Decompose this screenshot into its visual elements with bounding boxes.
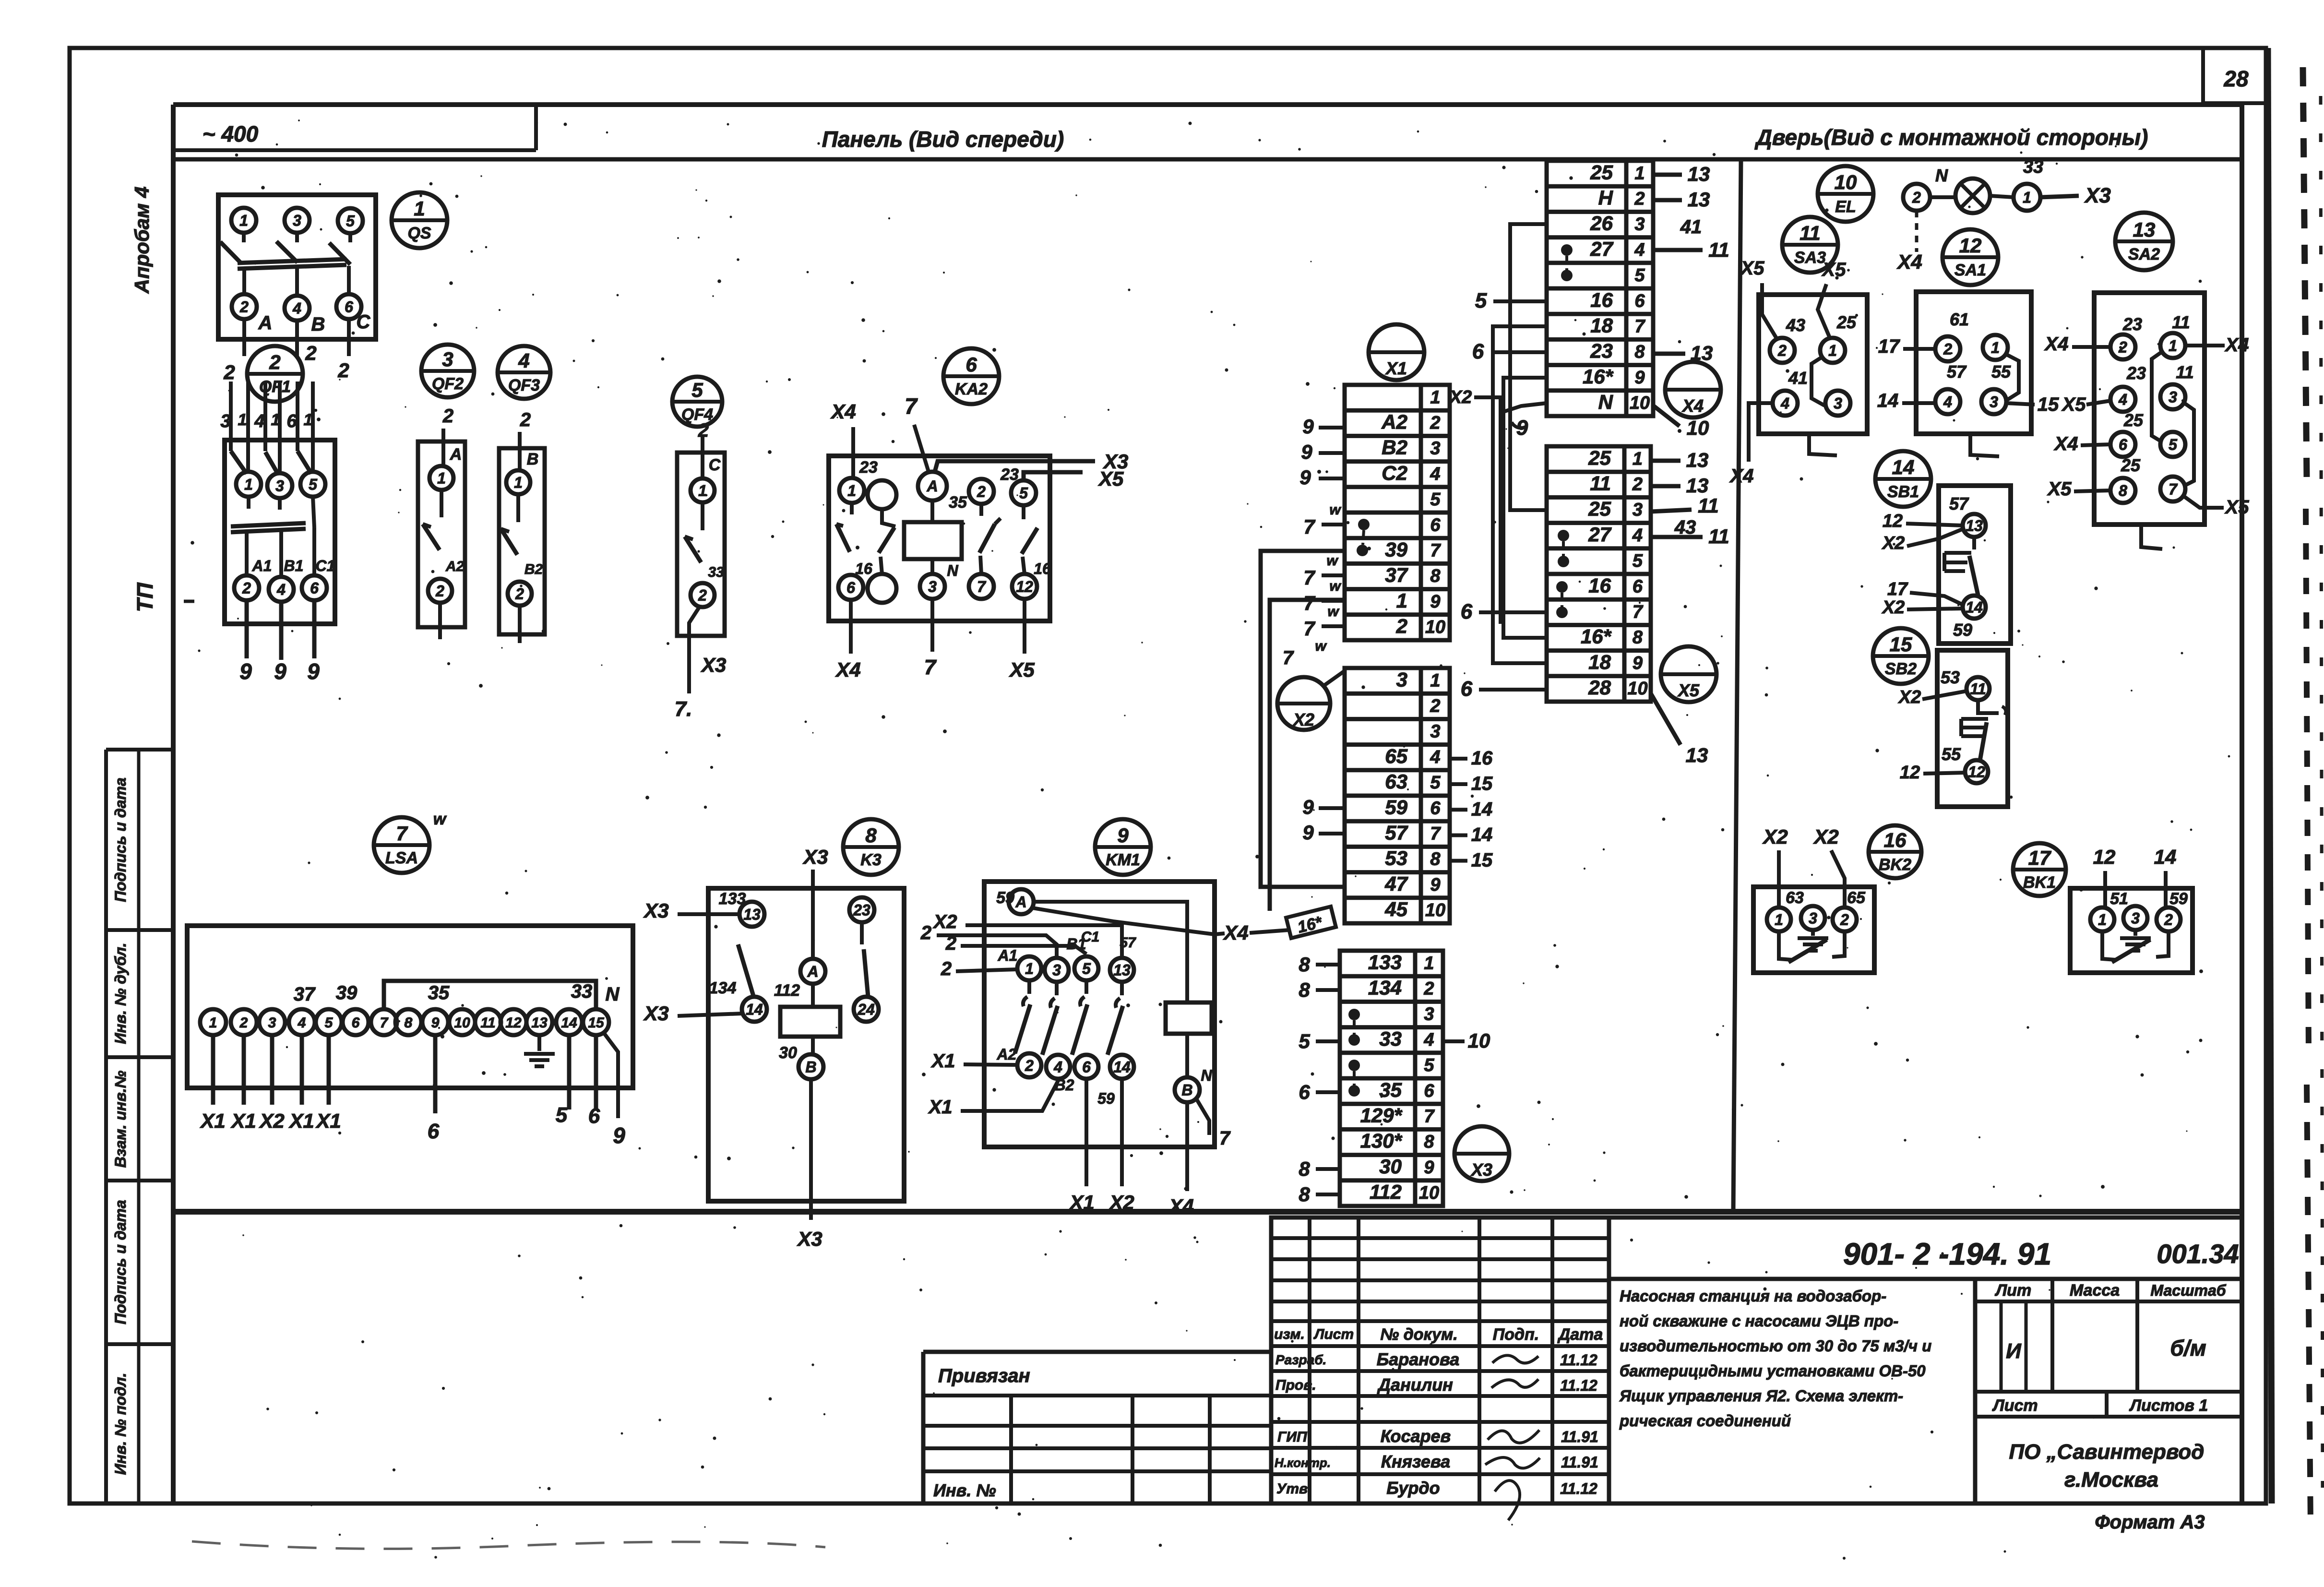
svg-text:11.91: 11.91 [1561,1428,1598,1445]
svg-text:2: 2 [223,361,235,383]
svg-text:5: 5 [1019,485,1028,502]
svg-text:130*: 130* [1360,1130,1403,1152]
svg-text:112: 112 [774,981,800,1000]
svg-text:9: 9 [1117,824,1129,847]
svg-text:6: 6 [352,1015,360,1031]
wire SA3 bottom pigtail [1809,434,1837,455]
svg-text:X2: X2 [1882,597,1905,618]
svg-text:2: 2 [1912,189,1921,206]
svg-text:LSA: LSA [385,849,418,867]
svg-text:X3: X3 [2084,184,2111,207]
wire LSA terminal 15, label 6 [588,1035,600,1128]
svg-text:16: 16 [855,560,872,577]
connector X3 designator circle [1454,1126,1509,1181]
svg-text:8: 8 [1430,566,1441,586]
scale box ~400 top-left [173,105,536,150]
svg-text:5: 5 [325,1015,334,1031]
svg-text:1: 1 [244,476,253,493]
wire buses left of X4/X5 tables [1449,224,1547,663]
svg-text:6: 6 [1082,1059,1091,1076]
svg-text:QF3: QF3 [508,376,540,394]
wire X4 into SA2 pin 2 [2044,334,2110,355]
svg-text:B1: B1 [284,557,304,574]
svg-text:7.: 7. [675,697,692,721]
svg-text:1: 1 [1828,342,1837,359]
svg-text:X2: X2 [1108,1191,1134,1214]
svg-text:~ 400: ~ 400 [203,121,259,146]
svg-text:12: 12 [2093,846,2116,868]
svg-text:9: 9 [613,1123,625,1148]
svg-text:X3: X3 [797,1228,822,1250]
wire SA2 pin 7 to X5 [2182,495,2249,518]
svg-text:Панель (Вид спереди): Панель (Вид спереди) [822,127,1064,152]
svg-text:7: 7 [1283,647,1294,668]
svg-text:9: 9 [307,659,320,684]
svg-text:4: 4 [298,1015,306,1031]
svg-text:9: 9 [1634,368,1645,388]
node TP label [132,582,194,612]
svg-text:4: 4 [1053,1059,1062,1076]
svg-text:2: 2 [1396,615,1407,637]
circuit breaker QF4 [677,420,725,636]
wire bus X1 row9 to 16* tag [1270,600,1345,938]
wire SA2 pin 1 to X4 [2185,334,2249,356]
terminal strip X3 [1340,951,1443,1206]
wire SA1 bottom pigtail [1970,434,1999,456]
svg-text:17: 17 [2028,847,2051,869]
svg-text:3: 3 [1809,910,1817,927]
svg-text:A1: A1 [252,557,272,574]
wire X2 into SB2 pin 11 [1898,687,1966,707]
svg-text:8: 8 [1424,1132,1434,1152]
terminal strip LSA designator circle 7/LSA [374,810,447,873]
svg-text:30: 30 [779,1044,797,1062]
svg-text:2: 2 [977,483,986,501]
svg-text:41: 41 [1788,368,1808,388]
svg-text:59: 59 [1097,1090,1115,1107]
svg-text:9: 9 [1299,466,1311,489]
svg-text:X4: X4 [1896,251,1922,273]
svg-text:X4: X4 [830,400,856,423]
svg-text:6: 6 [1633,576,1643,597]
svg-text:51: 51 [2110,890,2128,908]
svg-text:X1: X1 [931,1050,955,1072]
svg-text:47: 47 [1384,872,1408,895]
terminal strip X1 [1345,385,1450,640]
svg-text:ПО „Савинтервод: ПО „Савинтервод [2009,1440,2205,1464]
svg-text:2: 2 [239,1015,248,1031]
svg-text:13: 13 [1686,744,1708,766]
svg-text:11: 11 [1708,239,1729,261]
svg-text:X4: X4 [2225,334,2249,356]
svg-text:26: 26 [1590,212,1613,235]
svg-text:10: 10 [1425,617,1445,637]
svg-text:3: 3 [1990,394,1998,411]
svg-text:A1: A1 [998,947,1018,964]
svg-text:35: 35 [949,493,967,512]
svg-text:7: 7 [1303,566,1315,589]
relay K3 designator circle 8/K3 [843,819,899,875]
circuit breaker QF2 [418,406,465,639]
svg-text:28: 28 [1588,676,1611,699]
svg-text:2: 2 [698,587,707,604]
svg-text:Привязан: Привязан [938,1365,1030,1386]
svg-text:C2: C2 [1382,462,1407,484]
svg-text:7: 7 [1303,515,1315,538]
svg-text:Подп.: Подп. [1493,1325,1539,1344]
svg-text:K3: K3 [860,851,882,869]
wires KM1 bottom exits X1 X2 X4 7 [1069,1079,1231,1217]
wire X4 into KA2 pin 1 [830,400,856,478]
title block lit massa masshtab [1975,1279,2240,1392]
svg-text:1: 1 [1430,387,1440,407]
svg-text:25: 25 [2123,410,2144,430]
svg-text:6: 6 [1461,600,1473,623]
terminal strip X5 [1547,446,1651,702]
svg-text:53: 53 [1385,847,1407,870]
svg-text:SA3: SA3 [1794,249,1826,267]
svg-text:11.12: 11.12 [1560,1377,1597,1394]
svg-text:5: 5 [556,1103,568,1127]
svg-text:6: 6 [1430,798,1441,818]
wires QS outputs to QF1 (phase leads, labels 2) [223,319,349,383]
svg-text:C: C [709,456,721,474]
wire KM1 exit X4 top right [1215,933,1225,934]
svg-text:12: 12 [1959,234,1982,257]
svg-text:X1: X1 [1069,1191,1094,1214]
svg-text:4: 4 [2118,391,2127,408]
svg-text:12: 12 [1968,764,1985,781]
svg-text:11: 11 [2176,362,2193,382]
wire SA1 pin 3 to 15, X5 to SA2 pin 4 [2006,394,2110,415]
svg-text:8: 8 [1634,342,1645,362]
svg-text:бактерицидными установками О: бактерицидными установками ОВ-50 [1620,1362,1926,1380]
svg-text:11.91: 11.91 [1561,1454,1598,1471]
svg-text:Подпись и дата: Подпись и дата [112,1200,129,1324]
svg-text:129*: 129* [1360,1104,1403,1127]
svg-text:9: 9 [1301,441,1312,463]
svg-text:6: 6 [1424,1081,1434,1101]
svg-text:2: 2 [269,351,280,373]
svg-text:X2: X2 [933,911,957,932]
svg-text:2: 2 [1632,475,1643,495]
svg-text:Данилин: Данилин [1377,1375,1453,1395]
svg-text:13: 13 [1966,517,1983,535]
wires QF1 outputs, labels 9 9 9 [239,600,320,684]
wire LSA terminal 15 branch, label 9 [604,1033,625,1148]
svg-text:2: 2 [941,958,952,979]
wires X2 rows 4-8 to right labels 16 15 14 14 15 [1450,748,1493,871]
wires 8 8 5 6 8 8 into X3 rows [1299,953,1340,1205]
svg-text:1: 1 [1430,670,1440,691]
ground symbol in BK2 [1798,930,1828,951]
svg-text:25: 25 [1836,312,1857,332]
svg-text:5: 5 [1424,1055,1434,1075]
svg-text:X4: X4 [1729,465,1754,487]
wire bus X1 row7 to X2 row9 [1261,551,1345,887]
svg-text:б/м: б/м [2170,1336,2206,1360]
svg-text:39: 39 [1385,538,1407,561]
svg-text:3: 3 [293,212,301,229]
svg-text:25: 25 [1588,498,1611,520]
svg-text:27: 27 [1590,238,1613,260]
svg-text:3: 3 [1633,500,1643,520]
svg-text:A: A [258,312,273,334]
svg-text:Взам. инв.№: Взам. инв.№ [112,1070,129,1168]
svg-text:10: 10 [1425,900,1445,920]
svg-text:901- 2 -194. 91: 901- 2 -194. 91 [1843,1237,2051,1271]
svg-text:Князева: Князева [1381,1452,1450,1471]
svg-text:2: 2 [242,580,251,597]
svg-text:Ящик управления Я2. Схема: Ящик управления Я2. Схема элект- [1619,1387,1903,1405]
svg-text:KA2: KA2 [955,380,988,398]
svg-text:11: 11 [1970,680,1986,698]
relay KA2 designator circle 6/KA2 [943,348,999,404]
svg-text:X4: X4 [1681,396,1704,416]
svg-text:X1: X1 [315,1110,341,1132]
svg-text:C1: C1 [1081,929,1099,945]
svg-text:2: 2 [435,583,444,600]
svg-text:53: 53 [1941,668,1960,687]
svg-text:w: w [1329,578,1341,594]
svg-text:11: 11 [1708,525,1729,548]
svg-text:Косарев: Косарев [1381,1426,1451,1446]
switch SA1 [1916,292,2031,434]
svg-text:3: 3 [1430,439,1440,459]
svg-text:23: 23 [2122,314,2142,334]
svg-text:w: w [1327,604,1339,620]
svg-text:11.12: 11.12 [1560,1351,1597,1369]
svg-text:3: 3 [1834,395,1842,412]
svg-text:SB2: SB2 [1885,660,1917,678]
svg-text:4: 4 [1632,525,1643,546]
svg-text:14: 14 [1892,456,1915,478]
svg-text:14: 14 [1471,824,1493,845]
svg-text:4: 4 [1423,1030,1434,1050]
wires X2 X2 into BK2 [1762,825,1845,907]
svg-text:X2: X2 [1813,825,1838,848]
circuit breaker QF1 [220,382,335,624]
svg-text:Насосная станция на водозаб: Насосная станция на водозабор- [1620,1287,1886,1305]
svg-text:7: 7 [1303,592,1315,614]
svg-text:10: 10 [454,1015,470,1031]
svg-text:1: 1 [1424,953,1434,973]
svg-text:9: 9 [1302,821,1314,844]
svg-text:8: 8 [1299,978,1310,1001]
wires 9 into X2 rows 6,7 [1302,796,1345,844]
svg-text:C: C [357,311,371,333]
svg-text:16: 16 [1590,288,1613,311]
wire 6 into X5 row7 [1461,600,1547,623]
svg-text:ной скважине с насосами ЭЦ: ной скважине с насосами ЭЦВ про- [1620,1312,1898,1330]
svg-text:B: B [1181,1082,1192,1099]
panel / door divider line [1733,159,1741,1212]
svg-text:N: N [1935,166,1948,185]
svg-text:5: 5 [1082,960,1091,978]
svg-text:3: 3 [1396,668,1407,691]
svg-text:6: 6 [965,353,977,376]
svg-text:SA1: SA1 [1955,261,1986,279]
svg-text:13: 13 [2133,218,2156,241]
svg-text:3: 3 [1430,722,1440,742]
svg-text:57: 57 [1947,362,1967,382]
page number box 28 [2203,48,2268,103]
svg-text:7: 7 [1219,1128,1231,1149]
drawing area frame [173,105,2242,1503]
svg-text:4: 4 [1780,395,1789,412]
svg-text:B: B [805,1059,816,1076]
svg-text:X1: X1 [1385,358,1407,378]
svg-text:57: 57 [1385,822,1408,844]
svg-text:43: 43 [1674,517,1696,538]
svg-text:10: 10 [1630,393,1650,413]
svg-text:3: 3 [2131,910,2140,927]
svg-text:Разраб.: Разраб. [1275,1352,1326,1367]
svg-text:B: B [311,314,325,335]
svg-text:7: 7 [1303,617,1315,640]
svg-text:59: 59 [2169,890,2188,908]
level sensor BK2 designator circle 16/BK2 [1869,825,1921,878]
wires KA2 exits to X3 and X5 (top right) [935,450,1128,490]
svg-text:9: 9 [1516,416,1528,440]
connector X4 designator circle [1665,362,1721,418]
svg-text:11: 11 [2172,312,2190,332]
wires X3 into K3 contacts 13 and 14 [643,899,742,1025]
svg-text:3: 3 [275,477,284,495]
wire lamp terminal 2 to X4 (dashed) [1896,211,1922,273]
svg-text:X4: X4 [1223,921,1248,944]
wire X5 into SA2 pin 8 [2047,478,2110,500]
svg-text:112: 112 [1370,1181,1402,1203]
svg-text:Масса: Масса [2070,1281,2120,1300]
svg-text:9: 9 [1633,653,1643,673]
svg-text:13: 13 [1688,163,1710,185]
svg-text:BK2: BK2 [1879,856,1911,874]
svg-text:SB1: SB1 [1887,483,1919,501]
svg-text:13: 13 [743,906,761,923]
svg-text:6: 6 [846,579,855,597]
svg-text:7: 7 [1430,541,1441,561]
svg-text:2: 2 [1423,979,1434,999]
svg-text:9: 9 [1302,796,1314,818]
svg-text:X1: X1 [288,1110,314,1132]
svg-text:134: 134 [1368,977,1402,999]
wire jumper LSA 7 to 15 [384,981,596,1009]
circuit breaker QF3 designator circle 4/QF3 [498,346,550,399]
svg-text:15: 15 [2038,394,2059,415]
svg-text:10: 10 [1419,1183,1439,1203]
svg-text:12: 12 [1883,511,1903,531]
disconnector QS designator circle 1/QS [392,192,447,248]
svg-text:7: 7 [1424,1107,1435,1127]
svg-text:17: 17 [1878,336,1900,357]
svg-text:6: 6 [1461,677,1473,701]
circuit breaker QF4 designator circle 5/QF4 [672,377,722,427]
svg-text:59: 59 [1953,620,1972,640]
svg-text:5: 5 [1299,1030,1310,1052]
svg-text:8: 8 [1299,1157,1310,1180]
wire X3 label into K3 coil [802,846,828,959]
svg-text:X4: X4 [2044,334,2069,355]
svg-text:H: H [1598,187,1614,209]
svg-text:13: 13 [1686,449,1709,471]
svg-text:16*: 16* [1581,625,1612,648]
svg-text:Н.контр.: Н.контр. [1275,1456,1331,1470]
svg-text:15: 15 [1471,850,1493,871]
svg-text:001.34: 001.34 [2157,1239,2239,1269]
svg-text:12: 12 [1900,763,1920,783]
wire X5 into SA3 pin 1 [1818,259,1846,339]
svg-text:1: 1 [1991,339,2000,357]
svg-text:7: 7 [2169,481,2178,498]
svg-text:57: 57 [1949,494,1969,513]
svg-text:8: 8 [1299,953,1310,976]
wires X2 and 2 2 2 into KM1 [920,911,1122,979]
svg-text:33: 33 [2023,157,2043,177]
svg-text:134: 134 [709,979,737,997]
svg-text:X4: X4 [2054,433,2078,454]
svg-text:X3: X3 [701,654,726,676]
svg-text:13: 13 [1686,474,1709,497]
contactor KM1 designator circle 9/KM1 [1095,819,1151,875]
disconnector QS [218,195,376,339]
svg-text:18: 18 [1590,314,1613,337]
svg-text:N: N [1201,1067,1212,1084]
svg-text:11: 11 [480,1015,495,1031]
svg-text:14: 14 [561,1015,577,1031]
svg-text:13: 13 [531,1015,548,1031]
svg-text:16: 16 [1588,574,1611,597]
svg-text:2: 2 [1430,696,1440,716]
svg-text:Баранова: Баранова [1377,1349,1460,1369]
svg-text:3: 3 [1052,962,1061,979]
svg-text:рическая соединений: рическая соединений [1619,1412,1791,1430]
svg-text:1: 1 [238,411,247,429]
svg-text:X2: X2 [1762,825,1788,848]
svg-text:Инв. №: Инв. № [933,1480,996,1500]
svg-text:1: 1 [239,212,248,229]
svg-text:4: 4 [518,349,529,372]
svg-text:X5: X5 [2225,497,2250,518]
svg-text:Инв. № подл.: Инв. № подл. [112,1373,129,1475]
svg-text:Лист: Лист [1313,1326,1354,1342]
svg-text:изводительностью от 30 до 75: изводительностью от 30 до 75 м3/ч и [1620,1337,1931,1355]
svg-text:2: 2 [305,342,316,364]
svg-text:16: 16 [1884,829,1907,851]
svg-text:X5: X5 [1098,467,1124,490]
terminal strip X2 [1345,668,1450,923]
svg-text:55: 55 [1991,362,2011,382]
svg-text:C1: C1 [316,557,335,574]
svg-text:7: 7 [905,394,918,418]
svg-text:28: 28 [2223,66,2249,91]
svg-text:7: 7 [1633,602,1644,622]
wire X3 row4 to label 10 [1443,1029,1490,1052]
svg-text:X2: X2 [259,1110,284,1132]
scan edge artifacts right side [2268,48,2323,1526]
svg-text:№ докум.: № докум. [1380,1325,1457,1344]
svg-text:X5: X5 [1822,259,1847,280]
push button SB2 [1937,650,2008,807]
svg-text:9: 9 [1424,1157,1434,1178]
wires 12 14 into BK1 [2093,846,2177,907]
svg-text:6: 6 [588,1104,600,1128]
svg-text:133: 133 [1368,951,1402,973]
svg-text:B2: B2 [524,561,543,577]
svg-text:5: 5 [2169,436,2178,453]
svg-text:w: w [1329,502,1341,518]
svg-text:16*: 16* [1583,365,1614,388]
